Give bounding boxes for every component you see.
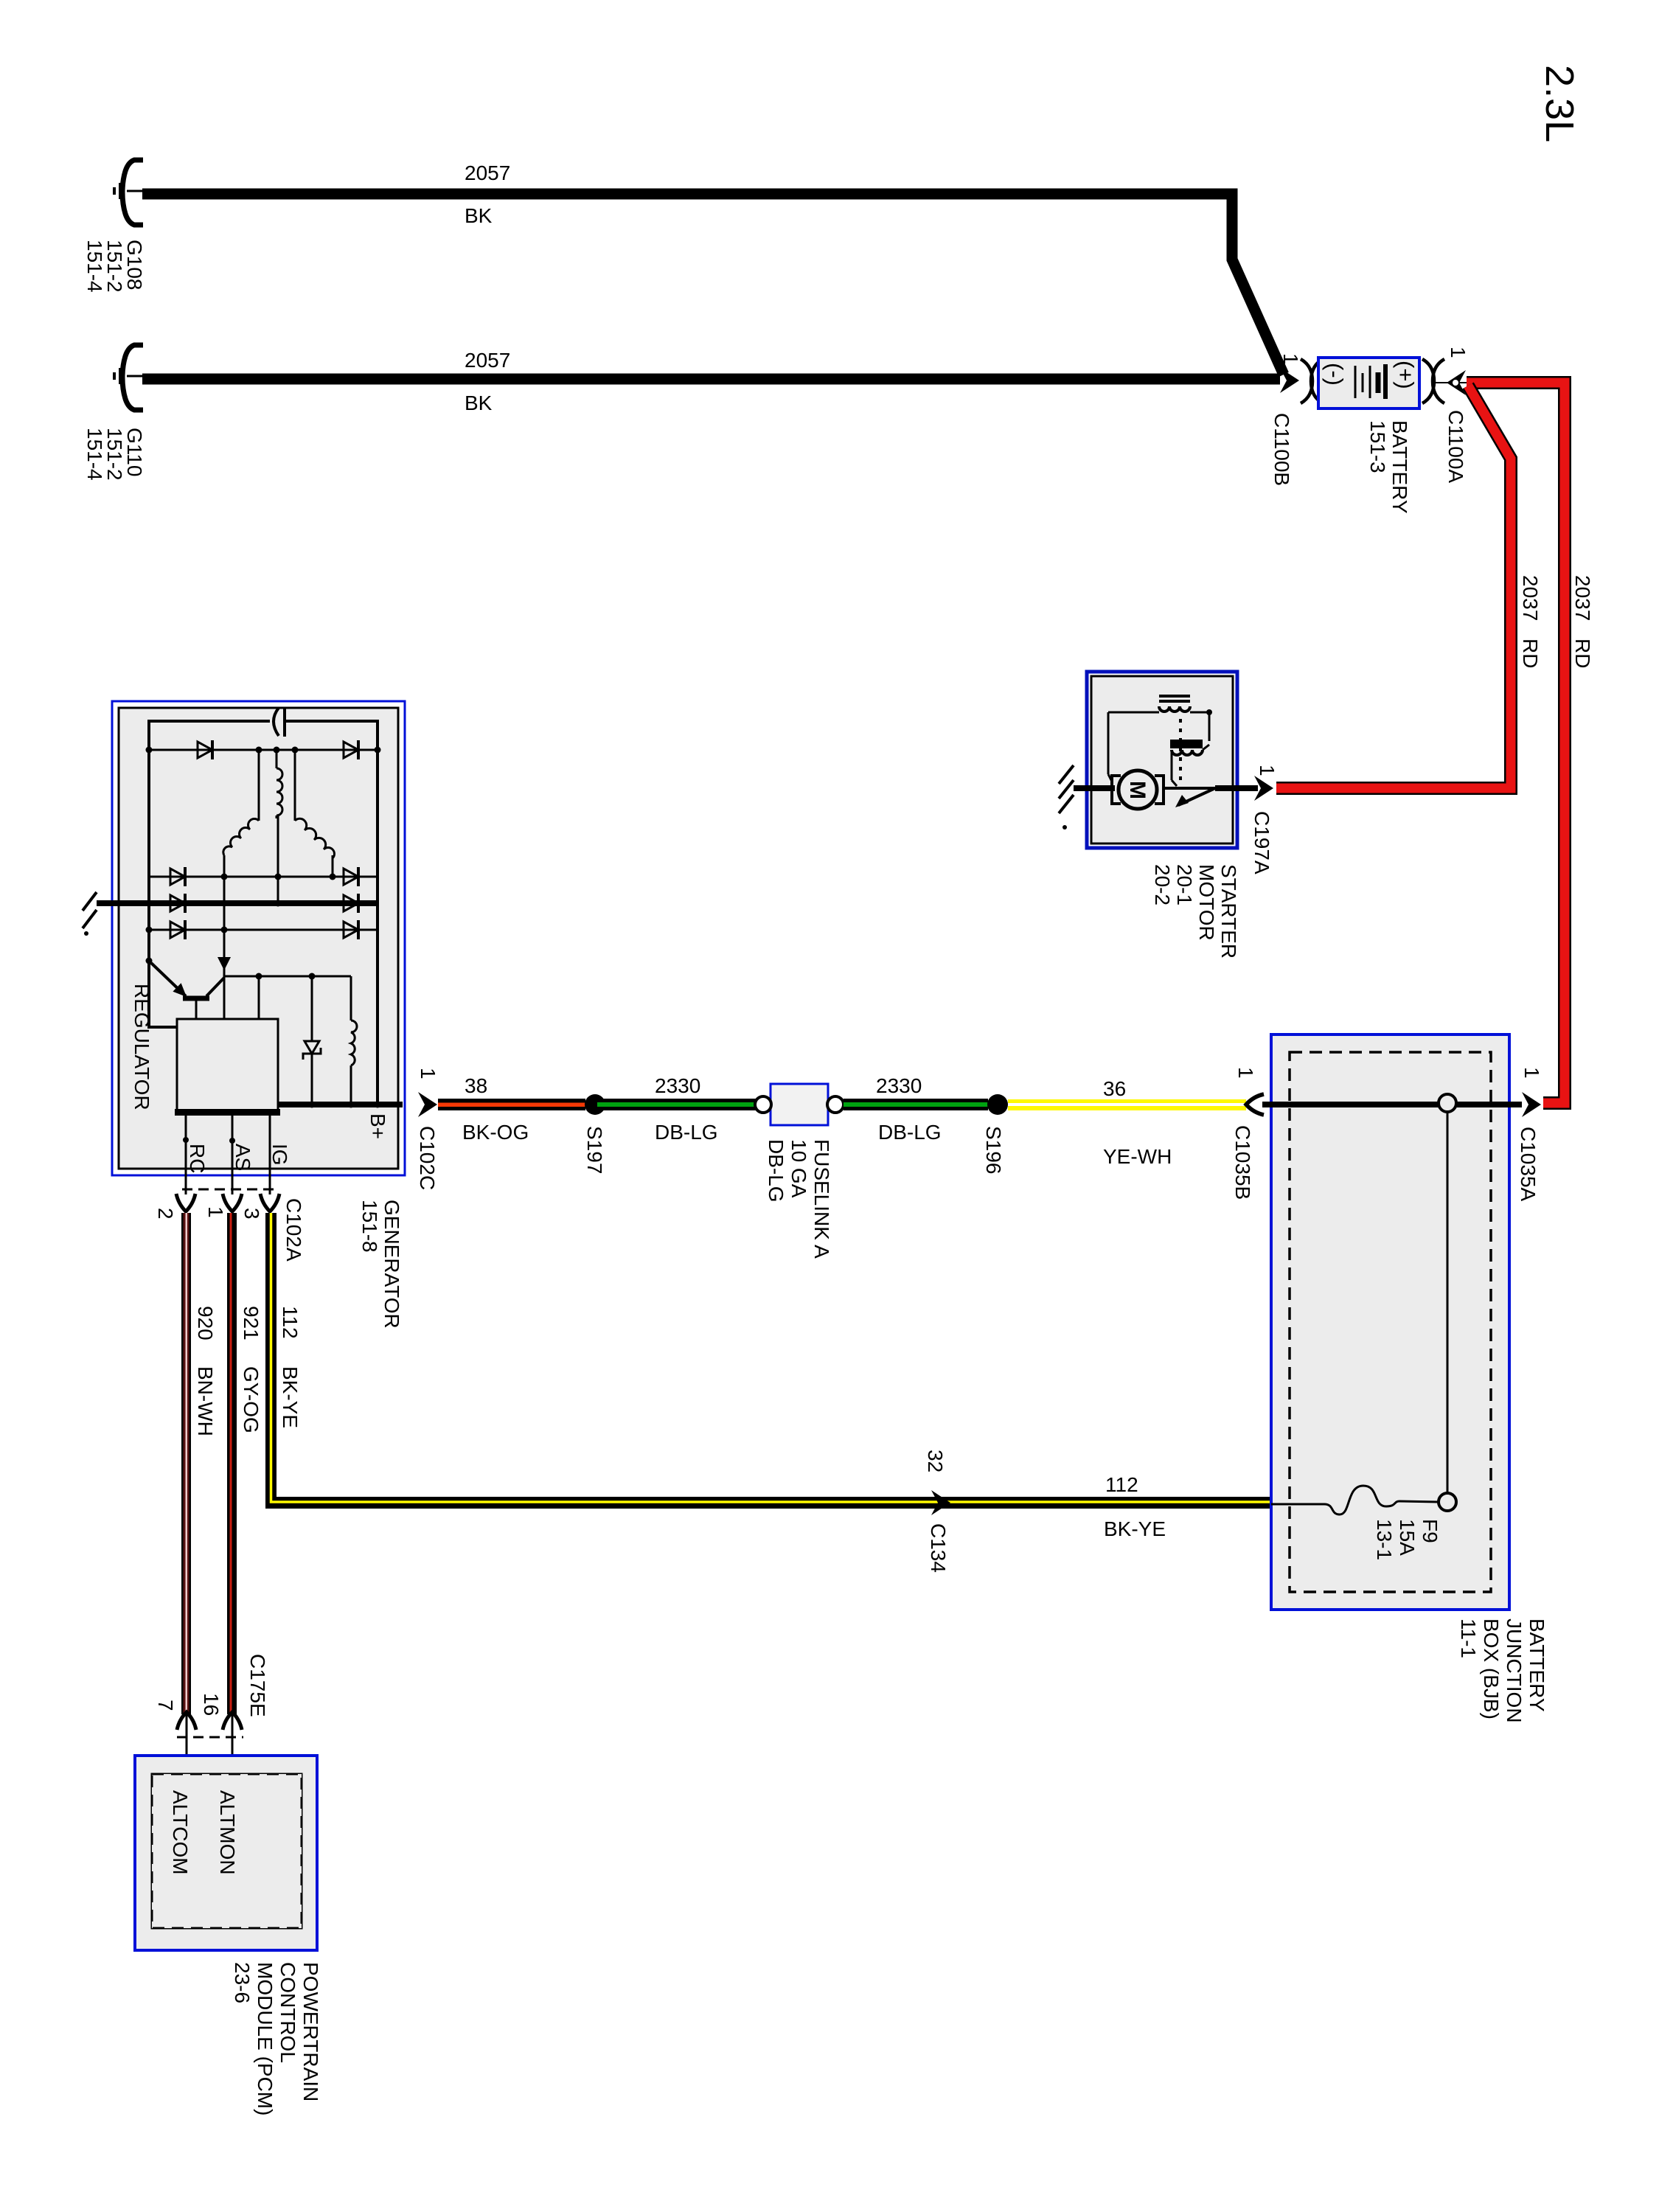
svg-text:2057: 2057 [465, 161, 510, 184]
svg-text:10 GA: 10 GA [787, 1139, 810, 1198]
svg-text:AS: AS [232, 1144, 254, 1171]
svg-text:3: 3 [240, 1208, 263, 1220]
svg-text:16: 16 [200, 1693, 223, 1716]
svg-text:S196: S196 [982, 1126, 1005, 1174]
svg-text:2330: 2330 [655, 1074, 700, 1097]
svg-text:1: 1 [1279, 353, 1302, 365]
svg-text:MODULE (PCM): MODULE (PCM) [254, 1962, 276, 2115]
svg-text:ALTMON: ALTMON [216, 1790, 239, 1875]
svg-text:BK: BK [465, 204, 493, 227]
svg-text:DB-LG: DB-LG [878, 1121, 942, 1144]
svg-text:23-6: 23-6 [231, 1962, 254, 2003]
svg-text:RC: RC [186, 1144, 209, 1173]
svg-text:C1035A: C1035A [1517, 1127, 1540, 1202]
svg-text:920: 920 [194, 1306, 217, 1340]
svg-text:32: 32 [924, 1450, 947, 1472]
svg-text:36: 36 [1103, 1077, 1126, 1100]
svg-text:C197A: C197A [1251, 811, 1273, 874]
svg-text:1: 1 [417, 1068, 439, 1079]
svg-text:BK-OG: BK-OG [462, 1121, 529, 1144]
svg-text:C102C: C102C [416, 1126, 439, 1190]
svg-text:1: 1 [1256, 765, 1279, 776]
svg-text:YE-WH: YE-WH [1103, 1145, 1172, 1168]
svg-text:2037: 2037 [1519, 575, 1542, 621]
svg-text:C1035B: C1035B [1231, 1125, 1254, 1200]
svg-text:REGULATOR: REGULATOR [131, 984, 153, 1110]
svg-text:C102A: C102A [282, 1198, 305, 1262]
svg-text:M: M [1125, 781, 1150, 799]
svg-text:DB-LG: DB-LG [655, 1121, 718, 1144]
svg-text:C1100A: C1100A [1444, 410, 1467, 483]
svg-text:1: 1 [1520, 1067, 1543, 1079]
svg-text:JUNCTION: JUNCTION [1503, 1618, 1526, 1723]
svg-text:112: 112 [1105, 1473, 1138, 1496]
svg-text:1: 1 [204, 1206, 227, 1218]
svg-text:38: 38 [465, 1074, 487, 1097]
svg-text:STARTER: STARTER [1217, 864, 1240, 959]
svg-text:F9: F9 [1419, 1519, 1441, 1543]
svg-text:BK-YE: BK-YE [1104, 1517, 1166, 1540]
svg-text:ALTCOM: ALTCOM [169, 1790, 192, 1875]
svg-text:C134: C134 [927, 1523, 950, 1573]
svg-text:921: 921 [240, 1306, 262, 1340]
svg-text:11-1: 11-1 [1457, 1618, 1480, 1658]
svg-text:RD: RD [1519, 639, 1542, 668]
svg-text:2330: 2330 [876, 1074, 922, 1097]
svg-text:GENERATOR: GENERATOR [380, 1200, 403, 1329]
svg-text:IG: IG [268, 1144, 291, 1166]
svg-text:BN-WH: BN-WH [194, 1366, 217, 1436]
svg-text:BK: BK [465, 392, 493, 414]
svg-text:C175E: C175E [246, 1654, 269, 1717]
svg-text:DB-LG: DB-LG [765, 1139, 787, 1203]
svg-text:GY-OG: GY-OG [240, 1366, 262, 1433]
svg-text:2057: 2057 [465, 349, 510, 372]
svg-text:CONTROL: CONTROL [276, 1962, 299, 2063]
svg-text:112: 112 [279, 1306, 302, 1339]
svg-text:BK-YE: BK-YE [279, 1366, 302, 1428]
svg-text:15A: 15A [1396, 1519, 1419, 1556]
svg-text:POWERTRAIN: POWERTRAIN [299, 1962, 322, 2101]
svg-text:S197: S197 [583, 1126, 606, 1174]
svg-text:13-1: 13-1 [1373, 1519, 1396, 1560]
svg-text:1: 1 [1447, 347, 1470, 358]
svg-text:151-4: 151-4 [83, 240, 106, 293]
svg-text:BATTERY: BATTERY [1388, 420, 1411, 514]
svg-text:(+): (+) [1393, 361, 1419, 389]
svg-text:151-8: 151-8 [358, 1200, 381, 1253]
svg-text:151-3: 151-3 [1366, 420, 1389, 473]
svg-text:FUSELINK A: FUSELINK A [810, 1139, 833, 1259]
svg-text:151-4: 151-4 [83, 428, 106, 481]
svg-text:2.3L: 2.3L [1537, 65, 1582, 142]
svg-text:20-2: 20-2 [1151, 864, 1174, 905]
svg-text:20-1: 20-1 [1173, 864, 1196, 905]
svg-text:1: 1 [1234, 1067, 1257, 1079]
svg-text:BATTERY: BATTERY [1526, 1618, 1548, 1712]
svg-text:BOX (BJB): BOX (BJB) [1480, 1618, 1503, 1719]
svg-text:2037: 2037 [1571, 575, 1594, 621]
svg-text:(-): (-) [1322, 363, 1348, 386]
svg-text:RD: RD [1571, 639, 1594, 668]
svg-text:2: 2 [154, 1208, 177, 1220]
svg-text:7: 7 [154, 1700, 177, 1711]
svg-text:B+: B+ [366, 1113, 389, 1139]
svg-text:MOTOR: MOTOR [1195, 864, 1218, 941]
svg-text:C1100B: C1100B [1270, 413, 1293, 486]
